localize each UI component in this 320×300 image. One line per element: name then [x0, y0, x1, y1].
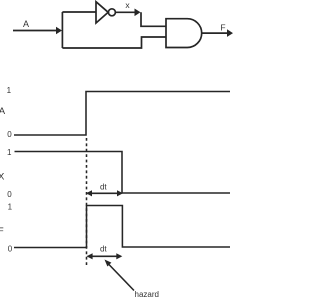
waveform F with hazard pulse [14, 206, 230, 248]
AND gate U2 [166, 19, 202, 48]
svg-text:0: 0 [7, 190, 12, 199]
svg-text:0: 0 [7, 130, 12, 139]
wire to inverter [62, 11, 96, 13]
svg-text:x: x [125, 0, 130, 10]
svg-text:dt: dt [100, 183, 107, 192]
wire X corner to AND top input [141, 12, 166, 26]
svg-text:1: 1 [8, 202, 13, 211]
svg-text:dt: dt [100, 245, 107, 254]
svg-text:hazard: hazard [135, 290, 159, 299]
wire A to AND bottom input [62, 37, 166, 48]
wire F output [202, 32, 229, 34]
svg-text:1: 1 [7, 148, 12, 157]
dimension arrow dt for F [88, 255, 121, 257]
svg-text:F: F [0, 226, 4, 237]
node junction vertical [61, 12, 63, 48]
inverter U1 triangle [96, 2, 108, 23]
svg-text:1: 1 [7, 86, 12, 95]
inverter U1 bubble [108, 9, 115, 16]
hazard pointer arrow [108, 263, 135, 291]
svg-text:X: X [0, 171, 5, 182]
svg-text:A: A [23, 19, 29, 29]
waveform X [15, 152, 231, 194]
wire A input [13, 30, 58, 32]
dimension arrow dt for X [88, 192, 121, 194]
wire X output [115, 11, 136, 13]
svg-text:F: F [220, 23, 225, 33]
svg-text:0: 0 [8, 244, 13, 253]
waveform A [14, 92, 230, 136]
arrowhead F output [227, 29, 233, 37]
arrowhead X wire [135, 9, 141, 17]
dashed reference line at A rise [86, 138, 88, 265]
arrowhead A input [56, 27, 62, 35]
svg-text:A: A [0, 106, 6, 117]
